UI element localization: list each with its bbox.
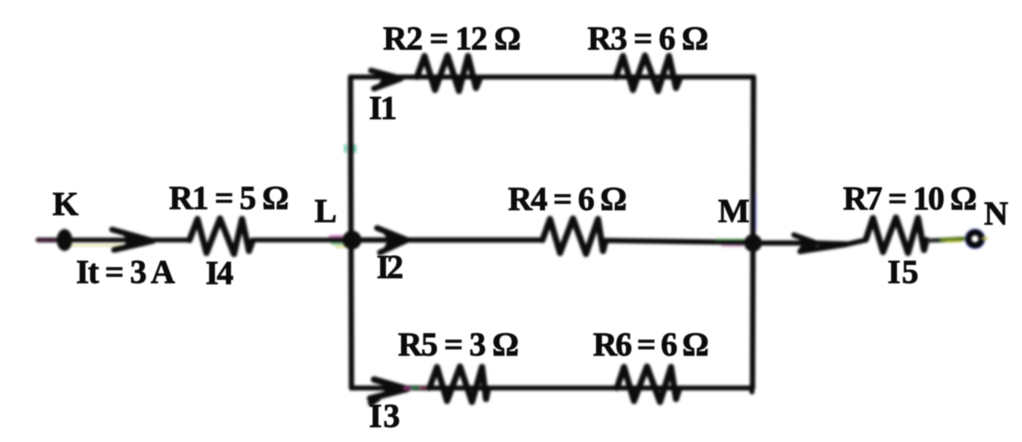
arrow I3 [370,380,407,404]
svg-text:R7 = 10 Ω: R7 = 10 Ω [843,181,977,218]
arrow I5 [794,235,846,252]
svg-text:N: N [984,196,1008,233]
jpeg artifact color dashes I3 [405,387,412,391]
wire R1 to L [252,238,351,243]
svg-text:R1 = 5 Ω: R1 = 5 Ω [169,180,289,217]
svg-text:R4 = 6 Ω: R4 = 6 Ω [508,181,627,218]
wire K to R1 [38,238,190,243]
resistor R1 [190,219,253,255]
arrow It [112,230,153,251]
svg-text:I1: I1 [369,90,397,127]
svg-text:R3 = 6 Ω: R3 = 6 Ω [588,21,709,58]
right vertical wire [753,77,754,388]
node M [744,234,762,252]
node N open circle [967,231,983,247]
resistor R3 [616,56,680,92]
arrow I1 [371,71,401,89]
resistor R5 [430,367,489,403]
svg-text:M: M [718,193,750,230]
wire R4 to M [605,241,753,243]
wire R7 to N [929,238,944,243]
bottom rail wire [352,388,752,392]
svg-text:I4: I4 [206,255,234,292]
node K [57,229,73,251]
svg-text:R5 = 3 Ω: R5 = 3 Ω [398,327,519,364]
arrow I2 [377,228,407,253]
resistor R2 [417,56,480,92]
resistor R6 [617,367,679,403]
jpeg artifact blue above M [755,194,757,230]
jpeg artifact yellow [60,245,145,247]
svg-text:R2 = 12 Ω: R2 = 12 Ω [383,21,521,58]
svg-text:It = 3 A: It = 3 A [76,254,175,291]
middle wire L to R4 [352,237,543,242]
wire M to R7 [753,240,866,244]
svg-text:K: K [53,186,79,223]
node L [343,231,362,250]
resistor R4 [543,219,606,255]
svg-text:I5: I5 [888,254,919,291]
jpeg artifact magenta [38,239,56,241]
svg-text:L: L [315,193,337,230]
jpeg artifact green at M [716,239,744,241]
svg-text:I2: I2 [377,249,404,286]
svg-text:R6 = 6 Ω: R6 = 6 Ω [593,327,709,364]
top rail wire [351,75,753,80]
jpeg artifact cyan on left vertical [346,146,356,152]
left vertical wire [351,77,352,388]
jpeg artifact colors at L [330,235,342,238]
resistor R7 [866,218,927,254]
svg-text:I3: I3 [369,398,400,435]
